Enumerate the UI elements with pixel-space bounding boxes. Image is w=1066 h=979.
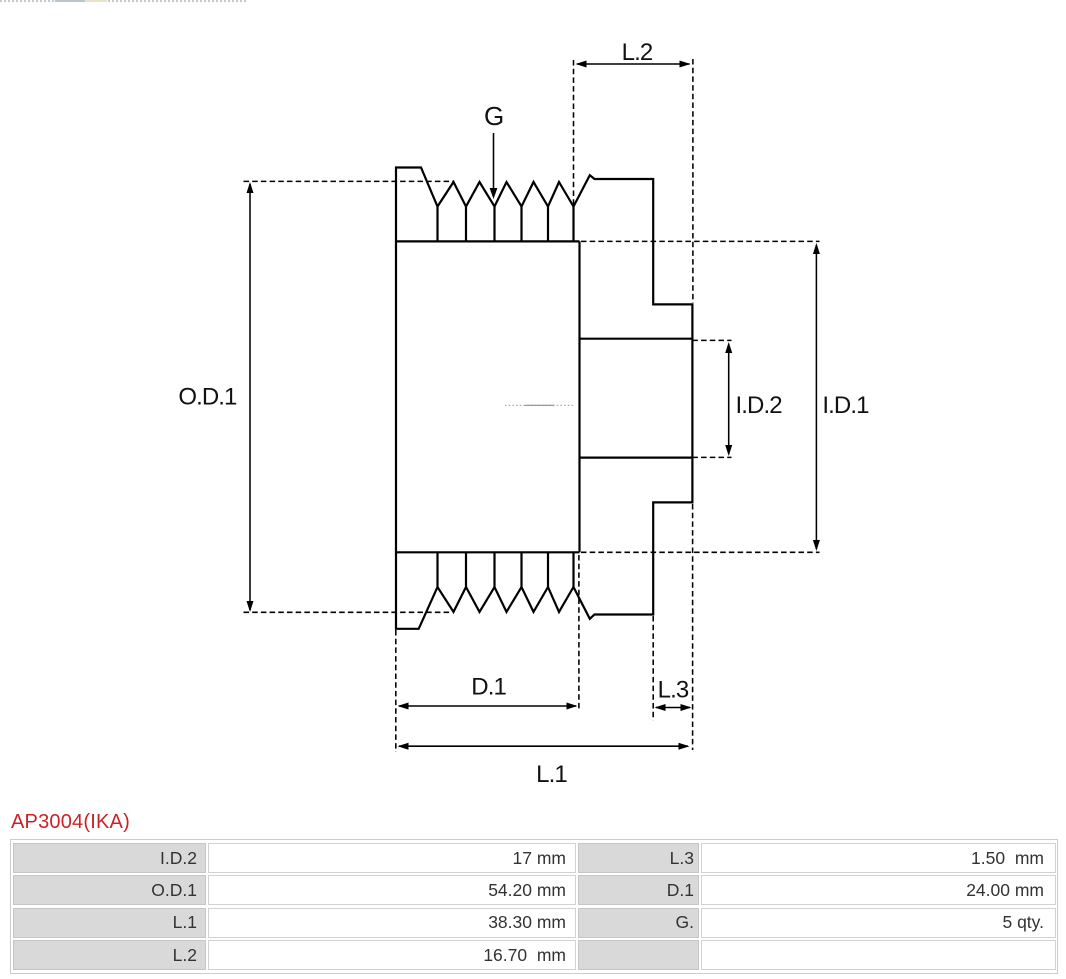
bottom groove slots: [438, 552, 574, 587]
G arrowhead: [490, 188, 498, 199]
D.1 dashed extension right: [578, 555, 580, 709]
specification table: [10, 839, 1058, 974]
I.D.1 dashed extension top: [581, 240, 820, 242]
svg-text:I.D.1: I.D.1: [822, 392, 869, 419]
svg-text:I.D.2: I.D.2: [736, 392, 783, 419]
L.3 arrowheads: [655, 704, 666, 711]
svg-text:D.1: D.1: [471, 674, 506, 701]
svg-text:L.3: L.3: [658, 677, 689, 704]
I.D.2 dashed extension top: [692, 339, 731, 341]
D.1 dimension line: [399, 705, 576, 707]
L.2 arrowheads: [576, 61, 587, 68]
groove base line bottom: [396, 551, 580, 553]
D.1 dashed extension left: [395, 630, 397, 752]
hub top line: [580, 338, 693, 340]
part number title: [11, 811, 130, 834]
O.D.1 arrowheads: [247, 182, 254, 193]
O.D.1 dashed extension bottom: [244, 611, 451, 613]
faint center line: [505, 404, 574, 406]
svg-text:O.D.1: O.D.1: [178, 384, 237, 411]
O.D.1 dashed extension top: [244, 180, 455, 182]
groove base line top: [396, 240, 580, 242]
L.3 dimension line: [656, 707, 690, 709]
L.2 dashed extension right: [692, 59, 694, 303]
svg-text:G: G: [484, 101, 503, 131]
L.2 dashed extension left: [573, 60, 575, 205]
I.D.1 dimension line: [815, 245, 817, 549]
L.1 dimension line: [399, 745, 688, 747]
I.D.2 dimension line: [728, 344, 730, 454]
body right edge: [578, 241, 580, 552]
I.D.1 arrowheads: [813, 243, 820, 254]
L.3 / L.1 dashed extension right: [692, 504, 694, 750]
I.D.2 arrowheads: [725, 342, 732, 353]
svg-text:L.1: L.1: [536, 761, 567, 788]
L.3 dashed extension left: [652, 616, 654, 721]
svg-text:L.2: L.2: [622, 39, 653, 66]
I.D.1 dashed extension bottom: [581, 551, 820, 553]
L.2 dimension line: [577, 63, 690, 65]
O.D.1 dimension line: [249, 184, 251, 610]
top groove slots: [438, 207, 574, 242]
I.D.2 dashed extension bottom: [692, 456, 731, 458]
D.1 arrowheads: [398, 703, 409, 710]
hub bottom line: [580, 457, 693, 459]
cut-off logo strip top-left: [0, 0, 246, 2]
pulley outline: [396, 168, 692, 629]
G leader line: [493, 133, 495, 189]
L.1 arrowheads: [398, 743, 409, 750]
